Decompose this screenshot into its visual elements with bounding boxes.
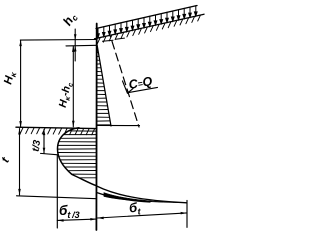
dimension H_K - h_c — [72, 46, 74, 127]
triangle base line to slip plane — [97, 124, 140, 126]
t/3 extension line — [41, 153, 59, 154]
dredge (left ground) line — [16, 127, 97, 128]
slip plane (dashed) — [111, 37, 140, 128]
wall (sheet pile) — [95, 24, 97, 231]
left tick at sigma_t/3 — [56, 156, 58, 229]
dimension t/3 — [43, 130, 45, 154]
active pressure triangle hypotenuse — [97, 45, 111, 127]
dredge hatching — [20, 128, 94, 135]
leader for c=0 — [123, 81, 134, 93]
dimension H_K — [20, 40, 22, 127]
passive pressure bulb curve — [58, 128, 97, 186]
surcharge load arrows — [97, 6, 197, 38]
underline of c=0 — [129, 87, 158, 92]
dimension sigma_t/3 — [57, 219, 96, 220]
right tick at sigma_t — [186, 200, 188, 227]
triangle hatching — [97, 49, 111, 125]
svg-text:t/3: t/3 — [31, 139, 44, 153]
bulb hatching — [58, 131, 96, 178]
counter pressure sliver right of wall — [97, 186, 187, 203]
t bottom extension line — [17, 196, 97, 199]
dimension sigma_t — [98, 213, 187, 218]
dimension h_c — [74, 29, 76, 61]
extension line B (wall top level) — [66, 44, 97, 47]
surcharge load top line — [96, 6, 197, 29]
extension line A (equivalent surface level) — [20, 39, 96, 42]
dimension t — [19, 129, 21, 195]
surface hatching — [97, 15, 200, 43]
surface level marks — [103, 40, 114, 41]
ground surface line (sloped, right of wall) — [95, 14, 205, 39]
